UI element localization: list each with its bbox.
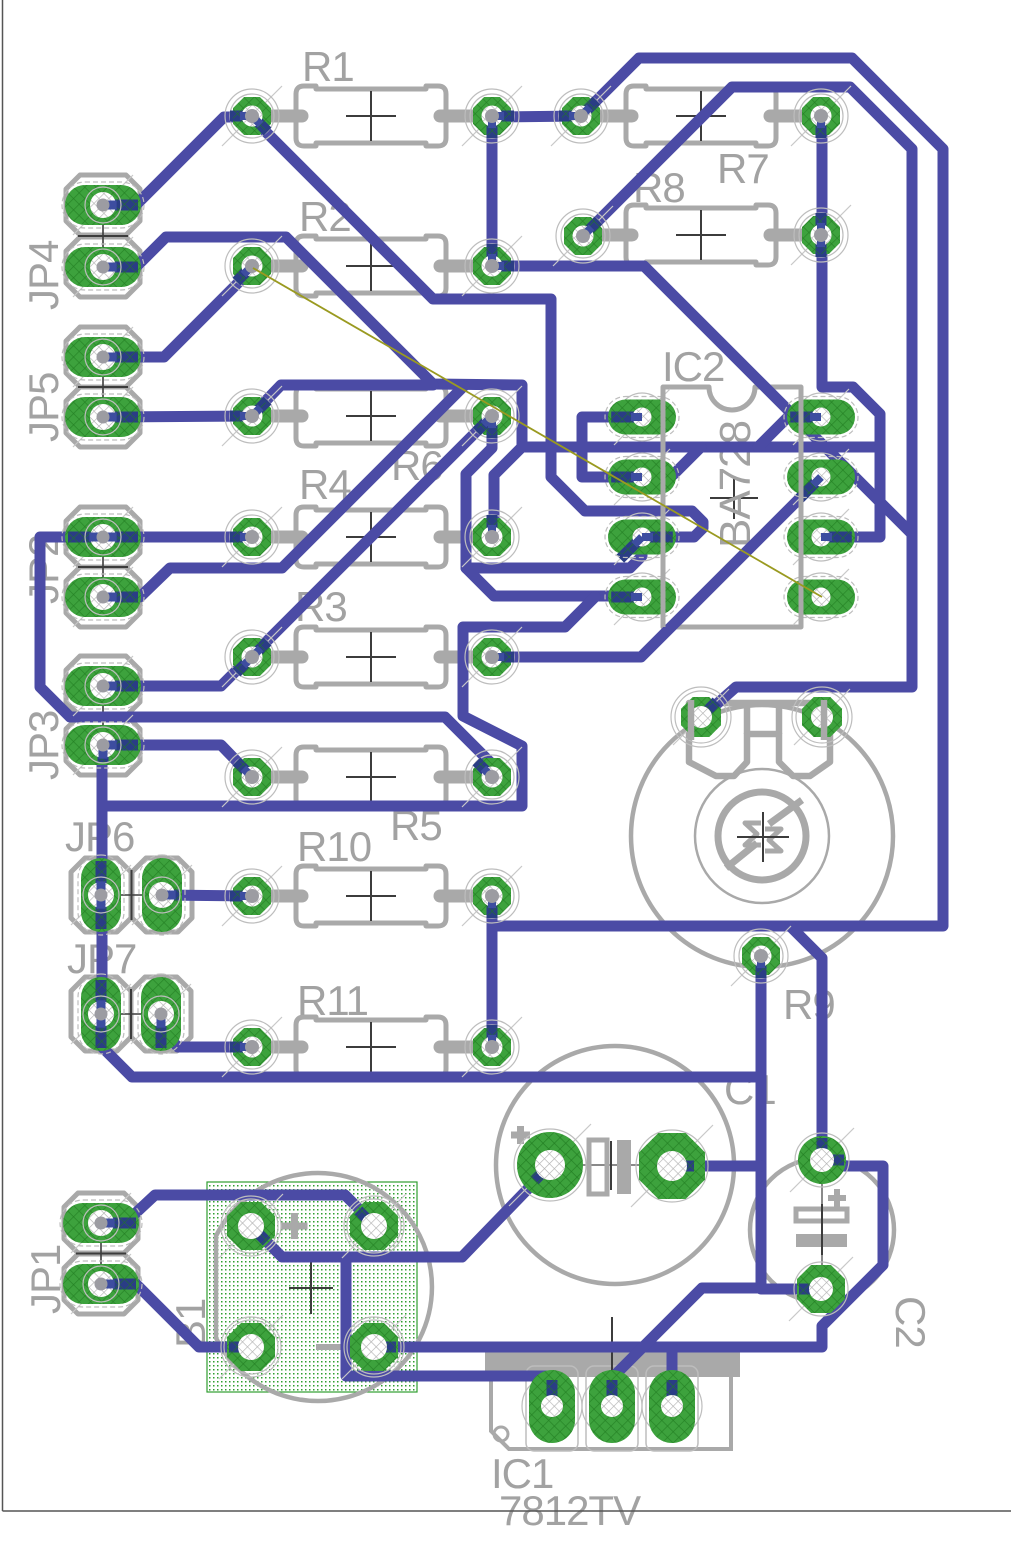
pad C2 minus — [789, 1257, 853, 1321]
header JP3 outline — [66, 656, 140, 716]
pad R9 bottom — [731, 926, 791, 986]
resistor R11 body — [252, 1041, 302, 1054]
pad JP6.1 — [71, 865, 131, 925]
wire trace P R5.2-box to pin4L — [102, 597, 595, 806]
wire R6.2 jog to IC2 pin4L — [466, 416, 641, 596]
pad JP4.1 — [73, 175, 133, 235]
svg-text:JP3: JP3 — [20, 711, 67, 780]
wire branch H447 to R8.2/R7.2 — [522, 116, 880, 447]
wire JP3.2 to R5.1 — [103, 745, 251, 776]
pad JP4.2 — [73, 237, 133, 297]
resistor R1 body — [252, 110, 302, 123]
pad IC2 pin2R — [793, 449, 849, 505]
wire JP2.2 to H385 — [103, 386, 464, 597]
wire JP6.2 to R10.1 — [162, 895, 252, 896]
svg-text:R11: R11 — [297, 977, 368, 1024]
resistor R5 body — [252, 771, 302, 784]
pad R9 right — [794, 689, 850, 745]
header JP1 outline — [64, 1193, 138, 1253]
wire JP4.1 to R1.1 — [103, 117, 251, 205]
wire IC2 pin1R to H447 — [758, 417, 821, 447]
pad JP7.1 — [71, 984, 131, 1044]
pad R3.1 — [222, 627, 282, 687]
svg-text:IC2: IC2 — [662, 343, 724, 390]
wire R2.2 to vertical x912 — [492, 266, 912, 534]
frame bottom edge — [3, 1510, 1011, 1512]
pad R8.2 — [791, 205, 851, 265]
pad JP2.1 — [73, 507, 133, 567]
op-amp IC2 body edge overlay — [661, 387, 666, 627]
wire R7.1 top loop to R10/R11 column — [492, 58, 943, 926]
pad C2 plus — [790, 1128, 854, 1192]
pad IC1 pin3 — [642, 1376, 702, 1436]
pad R1.2 — [462, 86, 522, 146]
op-amp IC2 body (BA728) — [663, 387, 801, 627]
pad R4.2 — [462, 507, 522, 567]
pad R2.2 — [462, 236, 522, 296]
pad JP2.2 — [73, 567, 133, 627]
wire B1.TL branch to IC1 pin1 — [346, 1257, 552, 1406]
pad R1.1 — [222, 86, 282, 146]
resistor R8 body — [581, 229, 632, 242]
wire JP1.1 to B1.TR — [101, 1195, 374, 1224]
wire JP7.1 to GND column — [101, 1014, 761, 1077]
header JP4 outline — [66, 175, 140, 235]
wire IC2 pin1L U to pin2L — [582, 417, 642, 477]
wire branch to IC2 pin3L — [466, 537, 642, 568]
pad JP3.1 — [73, 656, 133, 716]
pad JP1.1 — [71, 1193, 131, 1253]
wire R6.2 to R3.1 — [252, 416, 492, 656]
svg-text:JP1: JP1 — [22, 1245, 69, 1314]
svg-text:C2: C2 — [887, 1296, 934, 1348]
pad R11.1 — [222, 1017, 282, 1077]
trimmer R9 wing edge overlay — [688, 700, 695, 740]
pad R5.2 — [462, 747, 522, 807]
pad R10.2 — [462, 866, 522, 926]
pad JP7.2 — [131, 984, 191, 1044]
pad C1 plus — [509, 1124, 591, 1206]
wire JP5.2 to R6.1 — [103, 416, 252, 417]
header JP6 outline — [71, 858, 131, 932]
resistor R10 body — [252, 890, 302, 903]
header JP2 outline — [66, 507, 140, 567]
pad R10.1 — [222, 866, 282, 926]
wire branch to R6.1 — [252, 385, 433, 415]
pad IC2 pin3R — [793, 509, 849, 565]
pad R6.2 — [462, 386, 522, 446]
wire R1.1 to IC2 pin3L — [251, 117, 703, 537]
pad JP6.2 — [132, 865, 192, 925]
wire C2 bottom west — [761, 1284, 821, 1295]
pad IC2 pin1L — [614, 389, 670, 445]
wire R1.2 to R7.1 — [492, 116, 581, 117]
pad B1 BR — [342, 1315, 406, 1379]
wire JP3.1 to R3.1 — [103, 657, 250, 686]
wire R8.1 detour to R9 left — [583, 87, 912, 718]
header JP7 outline — [71, 977, 131, 1051]
pad R6.1 — [222, 386, 282, 446]
pad JP5.2 — [73, 387, 133, 447]
resistor R2 body — [252, 260, 302, 273]
wire JP2.1 to R4.1 — [103, 532, 252, 543]
pad IC2 pin4R — [793, 569, 849, 625]
resistor R6 body — [252, 410, 302, 423]
svg-text:R10: R10 — [297, 823, 371, 870]
pad R5.1 — [222, 747, 282, 807]
capacitor C1 body — [496, 1046, 734, 1284]
pad R4.1 — [222, 507, 282, 567]
pad R7.1 — [551, 86, 611, 146]
pad R2.1 — [222, 236, 282, 296]
wire JP7.2 to R11.1 — [161, 1014, 252, 1047]
airwire R2.1 to IC2 pin4R — [253, 268, 822, 597]
pad R7.2 — [791, 86, 851, 146]
pad JP5.1 — [73, 327, 133, 387]
wire IC2 pin2R to R3.2 — [492, 477, 821, 657]
bridge B1 keepout square — [207, 1182, 417, 1392]
pad R3.2 — [462, 627, 522, 687]
wire H926 branch to C2 top — [790, 926, 822, 1160]
pad B1 TL — [219, 1194, 283, 1258]
pad R9 left — [673, 689, 729, 745]
pad IC2 pin1R — [793, 389, 849, 445]
svg-text:R7: R7 — [717, 145, 769, 192]
wire C2 top to B1.BR — [371, 1166, 883, 1347]
pad IC2 pin3L — [614, 509, 670, 565]
regulator IC1 body — [485, 1347, 740, 1377]
svg-text:R1: R1 — [302, 43, 354, 90]
wire R9 bottom to IC1 pin2 — [612, 956, 761, 1406]
pad JP3.2 — [73, 715, 133, 775]
wire R1.2 to R2.2 — [487, 117, 498, 266]
wire JP2.1 west loop to R5.2 — [40, 537, 492, 777]
bridge B1 body — [216, 1173, 432, 1401]
wire branch to IC2 pin2L — [642, 447, 701, 477]
pad JP1.2 — [71, 1254, 131, 1314]
svg-text:JP5: JP5 — [20, 373, 67, 442]
pad IC2 pin4L — [614, 569, 670, 625]
resistor R3 body — [252, 651, 302, 664]
pad IC1 pin1 — [522, 1376, 582, 1436]
wire R10.2 to R11.2 — [487, 896, 498, 1047]
svg-text:BA728: BA728 — [711, 421, 760, 548]
pad IC2 pin2L — [614, 449, 670, 505]
svg-text:JP4: JP4 — [20, 240, 67, 310]
wire JP3.2 down to JP7.1 — [97, 745, 108, 1014]
pad R11.2 — [462, 1017, 522, 1077]
wire JP4.2 to R4.2 — [103, 237, 522, 537]
pad IC1 pin2 — [582, 1376, 642, 1436]
wire IC1 pin3 up — [667, 1347, 678, 1406]
capacitor C2 body — [750, 1158, 894, 1302]
resistor R4 body — [252, 531, 302, 544]
frame left edge — [2, 0, 4, 1511]
pad C1 minus — [631, 1125, 713, 1207]
wire B1.TL to C1 left — [251, 1166, 550, 1257]
wire JP1.2 to B1.BL — [101, 1284, 251, 1347]
wire IC2 pin3R east to V880 — [821, 447, 880, 537]
resistor R7 body — [581, 110, 632, 123]
wire C1 right to GND column — [672, 1161, 761, 1172]
trimmer R9 body — [631, 705, 893, 967]
pad B1 TR — [342, 1194, 406, 1258]
wire JP5.1 to R2.1 — [103, 268, 253, 357]
pad B1 BL — [219, 1315, 283, 1379]
header JP5 outline — [66, 327, 140, 387]
pad R8.1 — [553, 206, 613, 266]
